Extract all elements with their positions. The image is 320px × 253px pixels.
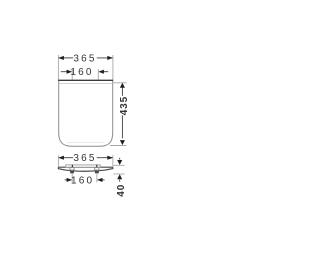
dimension 365 (front view) left arrow: [58, 156, 64, 160]
svg-text:160: 160: [70, 67, 93, 78]
dimension 365 (top view) dim line: [58, 57, 113, 59]
dimension 435 dim line: [121, 87, 123, 139]
seat profile bottom curve: [58, 167, 112, 171]
damper foot left: [70, 171, 74, 174]
dimension 435 top extension line: [113, 82, 126, 84]
seat lid body outline (top view): [59, 80, 113, 146]
extension line left (front view 365): [57, 155, 59, 166]
seat lid inner hinge line: [59, 83, 113, 85]
dimension 365 (front view) right arrow: [107, 156, 113, 160]
hinge nut left (below seat): [70, 168, 74, 171]
hinge bolt right: [96, 165, 98, 168]
dimension 365 (top view) right arrow: [107, 56, 113, 60]
dimension 435 top arrow: [120, 83, 125, 88]
dimension 160 (top view) left arrow: [67, 70, 73, 74]
dimension 365 (front view) dim line: [58, 157, 113, 159]
hinge bar (profile top): [66, 165, 101, 167]
seat lid faint inner front line: [67, 142, 105, 144]
extension line right (shared, top view): [112, 55, 114, 80]
dimension 40 bottom arrow: [117, 174, 122, 179]
seat lid top edge (hinge side, dark): [58, 79, 113, 81]
svg-text:365: 365: [73, 153, 96, 164]
dimension 365 (top view) left arrow: [58, 56, 64, 60]
extension line left (shared, top view): [57, 55, 59, 80]
dimension 40 dim line tails: [119, 158, 121, 182]
seat profile top edge (front view): [58, 166, 113, 168]
dimension 40 top extension line: [113, 164, 124, 166]
dimension 160 (top view) right arrow: [98, 70, 104, 74]
svg-text:365: 365: [73, 53, 96, 64]
dimension 435 bottom arrow: [120, 140, 125, 145]
dimension 160 (front view) right arrow: [97, 178, 103, 182]
hinge nut right (below seat): [95, 168, 99, 171]
dimension 160 (front view) dim line tails: [65, 179, 105, 181]
svg-text:160: 160: [71, 175, 94, 186]
svg-text:40: 40: [116, 184, 127, 197]
dimension 160 (front view) extension lines: [72, 173, 97, 182]
dimension 160 (top view) dim line tails: [61, 71, 108, 73]
dimension 160 (front view) left arrow: [67, 178, 73, 182]
svg-text:435: 435: [119, 96, 130, 115]
hinge bolt left: [71, 165, 73, 168]
dimension 435 bottom extension line: [110, 145, 127, 147]
dimension 40 top arrow: [117, 160, 122, 165]
dimension 40 bottom extension line: [113, 173, 124, 175]
extension line right (front view 365): [112, 155, 114, 166]
dimension 160 (top view) extension lines: [72, 69, 98, 80]
damper foot right: [95, 171, 99, 174]
